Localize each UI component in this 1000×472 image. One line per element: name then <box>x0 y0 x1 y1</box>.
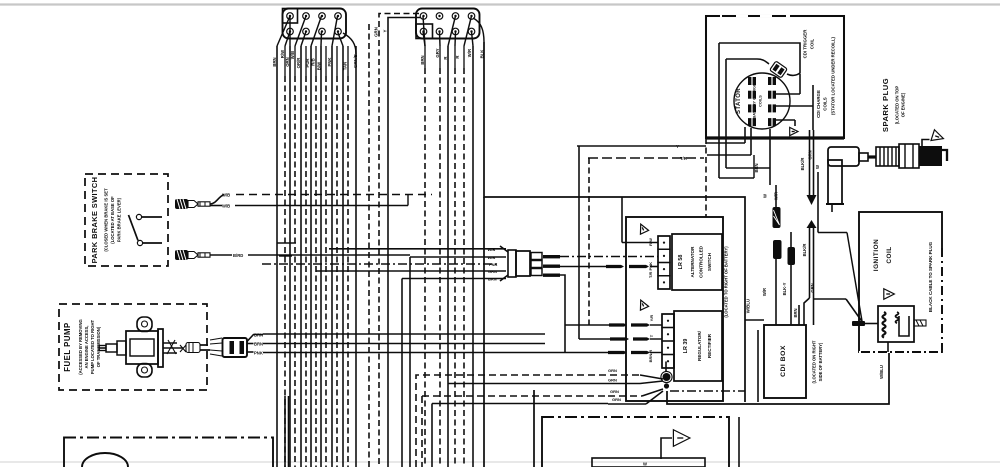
svg-text:IGNITION: IGNITION <box>873 239 880 271</box>
svg-text:RECTIFIER: RECTIFIER <box>707 333 712 358</box>
svg-text:W: W <box>815 165 820 169</box>
svg-text:ALTERNATOR: ALTERNATOR <box>690 246 695 278</box>
svg-text:GRN/B: GRN/B <box>353 54 358 68</box>
svg-text:GRN: GRN <box>612 397 621 402</box>
svg-text:W/B: W/B <box>488 255 496 260</box>
svg-text:(LOCATED ON TOP: (LOCATED ON TOP <box>895 86 900 125</box>
svg-text:LR 58: LR 58 <box>678 255 684 270</box>
svg-text:SWITCH: SWITCH <box>707 252 712 271</box>
svg-text:Y: Y <box>383 29 388 32</box>
svg-text:B/RD: B/RD <box>233 253 243 258</box>
svg-text:BRN: BRN <box>793 308 798 317</box>
svg-text:COILS: COILS <box>823 97 828 110</box>
svg-text:LR 39: LR 39 <box>683 339 689 354</box>
svg-text:CDI CHARGE: CDI CHARGE <box>816 90 821 118</box>
svg-text:PNK: PNK <box>254 351 263 356</box>
svg-text:SPARK PLUG: SPARK PLUG <box>881 78 890 132</box>
svg-text:W: W <box>763 194 768 198</box>
svg-text:GRN: GRN <box>808 150 813 159</box>
svg-text:COILS: COILS <box>759 95 763 107</box>
svg-text:W/B: W/B <box>488 247 496 252</box>
svg-text:BRN: BRN <box>272 57 277 66</box>
svg-text:CDI TRIGGER: CDI TRIGGER <box>803 29 808 59</box>
svg-text:(ACCESSED BY REMOVING: (ACCESSED BY REMOVING <box>78 319 83 375</box>
svg-text:(LOCATED ON RIGHT: (LOCATED ON RIGHT <box>812 340 817 383</box>
svg-text:BLK/R: BLK/R <box>802 244 807 257</box>
svg-text:GRN: GRN <box>488 269 497 274</box>
svg-text:BLK/R: BLK/R <box>800 158 805 171</box>
svg-text:R/W: R/W <box>280 49 285 58</box>
svg-text:REGULATOR/: REGULATOR/ <box>697 330 702 361</box>
svg-text:W/B: W/B <box>222 193 230 198</box>
svg-text:PUMP LOCATED TO RIGHT: PUMP LOCATED TO RIGHT <box>90 319 95 374</box>
svg-text:Y/R: Y/R <box>649 315 654 322</box>
svg-text:BLACK CABLE TO SPARK PLUG: BLACK CABLE TO SPARK PLUG <box>928 241 933 312</box>
svg-text:(LOCATED AT BASE OF: (LOCATED AT BASE OF <box>110 196 115 244</box>
svg-text:W/R: W/R <box>774 192 779 200</box>
svg-text:Y: Y <box>676 144 679 149</box>
svg-text:BATTERY CHARGE: BATTERY CHARGE <box>753 83 757 118</box>
svg-text:PNK: PNK <box>327 57 332 67</box>
svg-text:R/W: R/W <box>648 238 653 246</box>
svg-text:OR/R: OR/R <box>296 57 301 69</box>
svg-text:GRN: GRN <box>608 378 617 383</box>
svg-text:W/BLU: W/BLU <box>746 299 751 313</box>
svg-text:W/R: W/R <box>762 288 767 296</box>
svg-text:PARK BRAKE LEVER): PARK BRAKE LEVER) <box>117 197 122 242</box>
svg-text:GRN: GRN <box>610 389 619 394</box>
svg-text:BLK: BLK <box>480 49 485 59</box>
svg-text:GRN: GRN <box>608 368 617 373</box>
svg-text:PNK: PNK <box>489 262 498 267</box>
svg-text:STATOR: STATOR <box>736 88 742 114</box>
svg-text:BRN: BRN <box>254 333 263 338</box>
svg-text:COIL: COIL <box>810 38 815 49</box>
svg-text:T/R: T/R <box>680 156 687 161</box>
svg-text:W/BLU: W/BLU <box>879 365 884 379</box>
svg-text:BRN: BRN <box>254 342 263 347</box>
svg-text:R/B: R/B <box>311 58 316 65</box>
svg-text:PARK BRAKE SWITCH: PARK BRAKE SWITCH <box>90 177 99 264</box>
svg-text:CDI BOX: CDI BOX <box>780 345 787 377</box>
svg-text:PUR: PUR <box>305 58 310 68</box>
svg-text:B/W: B/W <box>317 61 322 70</box>
svg-text:SIDE OF BATTERY): SIDE OF BATTERY) <box>818 342 823 381</box>
svg-text:CONTROLLED: CONTROLLED <box>699 245 704 278</box>
svg-text:W/B: W/B <box>290 51 295 59</box>
svg-text:BLK-Y: BLK-Y <box>782 282 787 295</box>
svg-text:BRN: BRN <box>420 55 425 64</box>
svg-text:W/B: W/B <box>222 204 230 209</box>
svg-text:GRN: GRN <box>374 27 379 37</box>
svg-text:(CLOSED WHEN BRAKE IS SET: (CLOSED WHEN BRAKE IS SET <box>104 188 109 252</box>
svg-text:FUEL PUMP: FUEL PUMP <box>63 322 72 371</box>
svg-text:W: W <box>643 462 647 467</box>
svg-text:COIL: COIL <box>886 246 893 263</box>
svg-text:AN ENGINE ACCESS,: AN ENGINE ACCESS, <box>84 326 89 369</box>
svg-text:BRN/R: BRN/R <box>648 350 653 363</box>
svg-text:T/R PNK: T/R PNK <box>648 262 653 278</box>
svg-text:GRN: GRN <box>810 283 815 292</box>
svg-text:TAN: TAN <box>343 62 348 71</box>
svg-text:GRY: GRY <box>435 48 440 57</box>
svg-text:OF ENGINE): OF ENGINE) <box>901 92 906 117</box>
svg-text:(STATOR LOCATED UNDER RECOILL): (STATOR LOCATED UNDER RECOILL) <box>831 36 836 115</box>
svg-text:(LOCATED TO RIGHT OF BATTERY): (LOCATED TO RIGHT OF BATTERY) <box>724 246 729 318</box>
svg-text:W/R: W/R <box>467 48 472 57</box>
svg-text:BRN: BRN <box>488 277 497 282</box>
